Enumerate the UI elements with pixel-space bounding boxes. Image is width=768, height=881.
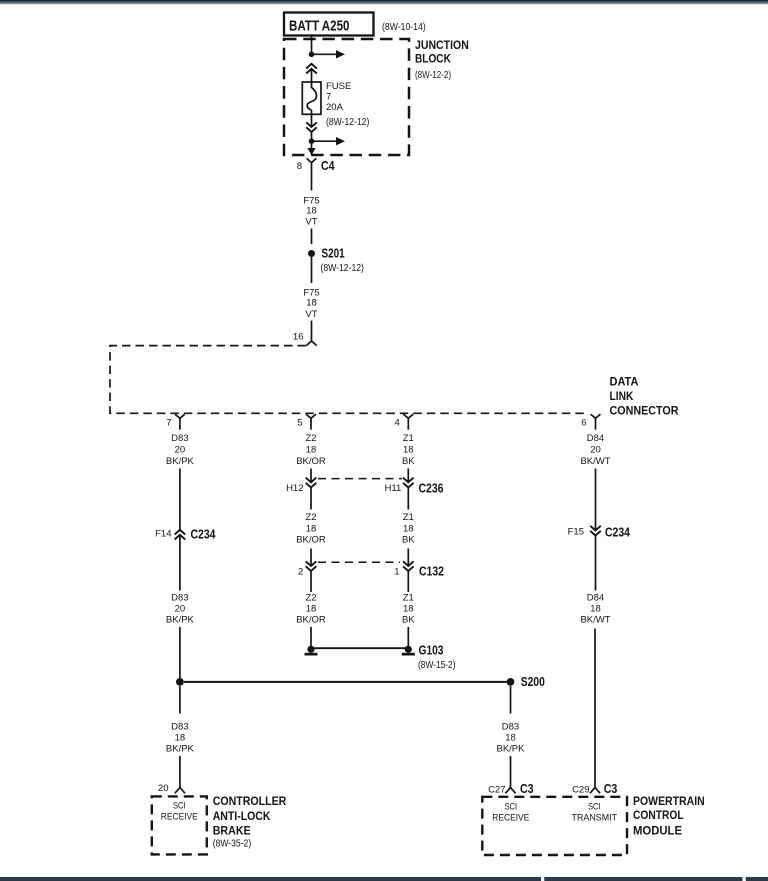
svg-text:(8W-15-2): (8W-15-2) (418, 660, 456, 671)
connector C132 pin 1 (394, 561, 444, 578)
svg-text:RECEIVE: RECEIVE (492, 813, 529, 824)
svg-text:7: 7 (326, 92, 331, 103)
wire below C132 pin1 (407, 571, 409, 592)
svg-text:H12: H12 (286, 483, 303, 494)
wire pin4 col to C236 (407, 469, 409, 483)
svg-text:C3: C3 (520, 782, 534, 796)
wire (311, 229, 313, 245)
svg-text:Z1: Z1 (403, 592, 414, 603)
svg-text:Z2: Z2 (305, 592, 316, 603)
wire pin6 col long drop to C29 (594, 629, 596, 788)
svg-text:BK/PK: BK/PK (166, 744, 195, 755)
connector chevrons (up) below dot (306, 64, 317, 74)
feed arrow 2 (314, 137, 345, 145)
wire Z2 col to ground (310, 627, 312, 646)
svg-text:ANTI-LOCK: ANTI-LOCK (213, 809, 271, 823)
wire pin5 col to C236 (310, 469, 312, 483)
junction dot (309, 52, 315, 58)
svg-text:Z2: Z2 (305, 433, 316, 444)
wire pin6 col to C234 F15 (595, 469, 597, 531)
wire label D84 18 BK/WT (lower right) (580, 592, 610, 625)
ground link wire (311, 647, 408, 649)
data link connector dashed outline (110, 346, 588, 414)
wire Z2 col to C132 (310, 549, 312, 567)
svg-text:BK/WT: BK/WT (580, 456, 610, 467)
svg-text:(8W-10-14): (8W-10-14) (382, 22, 426, 33)
svg-text:BK/PK: BK/PK (166, 456, 195, 467)
wire below C234 F14 (179, 535, 181, 591)
wire below C234 F15 (595, 536, 597, 591)
wire chevrons to junction dot 2 (311, 132, 313, 141)
wire label D83 18 BK/PK (right drop) (497, 722, 526, 755)
svg-text:BK/WT: BK/WT (580, 614, 610, 625)
svg-text:SCI: SCI (505, 802, 518, 813)
wire (311, 257, 313, 283)
wire below H12 (310, 488, 312, 510)
pin 4 (395, 414, 414, 430)
svg-text:20: 20 (158, 783, 169, 794)
svg-text:DATA: DATA (610, 374, 639, 388)
svg-text:SCI: SCI (173, 801, 186, 812)
svg-text:18: 18 (590, 603, 601, 614)
wire chevrons to fuse (311, 69, 313, 88)
wire to pin 16 (311, 321, 313, 342)
wire label Z2 18 BK/OR (lower) (296, 592, 326, 625)
svg-text:F14: F14 (155, 529, 171, 540)
pin 16 connector (293, 332, 317, 346)
wire below H11 (407, 488, 409, 510)
wire to pin 20 (179, 756, 181, 788)
controller anti-lock brake label (213, 794, 287, 849)
svg-text:18: 18 (306, 603, 317, 614)
svg-text:G103: G103 (419, 643, 444, 657)
svg-text:F15: F15 (568, 527, 584, 538)
svg-text:C132: C132 (419, 565, 444, 579)
svg-text:C27: C27 (488, 785, 505, 796)
fuse F7 (302, 81, 369, 128)
junction block dashed box (284, 38, 469, 155)
svg-text:Z2: Z2 (305, 512, 316, 523)
svg-text:C3: C3 (604, 782, 618, 796)
wire label Z1 18 BK (pin4) (402, 433, 415, 467)
svg-text:(8W-12-2): (8W-12-2) (415, 70, 451, 81)
svg-text:S201: S201 (322, 247, 345, 261)
svg-text:(8W-35-2): (8W-35-2) (213, 838, 252, 849)
svg-text:VT: VT (305, 216, 317, 227)
connector C234 F14 (chevrons up) (155, 527, 215, 541)
wire BATT to junction dot (311, 36, 313, 53)
svg-text:18: 18 (403, 444, 414, 455)
svg-text:CONTROLLER: CONTROLLER (213, 794, 287, 808)
svg-text:18: 18 (306, 298, 317, 309)
wire pin7 col to C234 (179, 469, 181, 530)
svg-text:Z1: Z1 (403, 512, 414, 523)
bottom page rule (0, 877, 768, 881)
svg-text:8: 8 (297, 161, 302, 172)
connector C236 H12 (286, 478, 316, 494)
svg-text:D84: D84 (587, 433, 604, 444)
svg-text:BK/OR: BK/OR (296, 614, 326, 625)
svg-text:6: 6 (581, 418, 586, 429)
pin 5 (297, 414, 316, 430)
wire Z1 col to C132 (407, 549, 409, 567)
svg-text:BK/OR: BK/OR (296, 534, 326, 545)
connector C236 H11 (385, 478, 444, 496)
splice S200 node left dot (176, 678, 184, 686)
pin 7 (166, 414, 185, 430)
svg-text:BK/PK: BK/PK (497, 744, 526, 755)
svg-text:VT: VT (305, 309, 317, 320)
wire fuse to chevrons (311, 110, 313, 127)
pin C27 connector C3 (488, 782, 534, 796)
junction dot 2 (309, 138, 315, 144)
svg-text:(8W-12-12): (8W-12-12) (321, 263, 364, 274)
svg-text:S200: S200 (521, 675, 545, 689)
pin 6 (581, 414, 600, 430)
svg-text:18: 18 (403, 603, 414, 614)
svg-text:LINK: LINK (610, 389, 634, 403)
svg-text:C234: C234 (191, 527, 216, 541)
data link connector label (610, 374, 679, 417)
powertrain control module label (633, 794, 705, 838)
svg-text:FUSE: FUSE (326, 81, 351, 92)
wire label Z2 18 BK/OR (pin5) (296, 433, 326, 467)
controller anti-lock brake dashed box (152, 796, 207, 854)
feed arrow 1 (314, 50, 345, 58)
svg-text:CONNECTOR: CONNECTOR (610, 404, 679, 418)
svg-text:BK: BK (402, 456, 415, 467)
svg-text:H11: H11 (385, 483, 402, 494)
svg-text:Z1: Z1 (403, 433, 414, 444)
pin 20 connector (158, 783, 185, 794)
wire label Z1 18 BK (lower) (402, 592, 415, 625)
ground dot left (305, 646, 318, 656)
svg-text:5: 5 (297, 418, 302, 429)
powertrain control module dashed box (482, 797, 627, 855)
connector C132 pin 2 (298, 561, 316, 577)
top page rule (0, 0, 768, 4)
wire label F75 18 VT (upper) (303, 195, 319, 227)
svg-text:D83: D83 (502, 722, 519, 733)
battery feed box BATT A250 (284, 13, 426, 36)
svg-text:4: 4 (395, 418, 400, 429)
svg-text:20: 20 (175, 603, 186, 614)
wire left col to S200 (179, 627, 181, 678)
wire label D83 20 BK/PK (pin7) (166, 433, 195, 467)
svg-text:BK: BK (402, 534, 415, 545)
svg-text:(8W-12-12): (8W-12-12) (326, 117, 369, 128)
svg-text:20A: 20A (326, 102, 344, 113)
wire label D83 20 BK/PK (lower left) (166, 592, 195, 625)
connector C234 F15 (chevrons down) (568, 525, 630, 539)
svg-text:BK/OR: BK/OR (296, 456, 326, 467)
wire label D84 20 BK/WT (pin6) (580, 433, 610, 467)
svg-text:D83: D83 (171, 722, 188, 733)
svg-text:18: 18 (505, 733, 516, 744)
svg-text:BK/PK: BK/PK (166, 614, 195, 625)
svg-text:C236: C236 (419, 481, 444, 495)
svg-text:BK: BK (402, 614, 415, 625)
splice S200 link wire (184, 681, 507, 683)
pin C29 connector C3 (572, 782, 617, 796)
wire to C27 (510, 756, 512, 788)
wire label F75 18 VT (lower) (303, 288, 319, 321)
dashed connector link C236 (318, 478, 402, 480)
svg-text:18: 18 (306, 206, 317, 217)
ground G103 right (402, 643, 456, 671)
wire to F75 label (311, 175, 313, 191)
svg-text:C234: C234 (605, 525, 630, 539)
splice S201 (308, 247, 364, 275)
svg-text:7: 7 (166, 418, 171, 429)
svg-text:1: 1 (394, 567, 399, 578)
svg-text:D83: D83 (171, 433, 188, 444)
svg-text:BRAKE: BRAKE (213, 824, 251, 838)
svg-text:18: 18 (175, 733, 186, 744)
svg-text:2: 2 (298, 567, 303, 578)
svg-text:D84: D84 (587, 592, 604, 603)
svg-text:BATT A250: BATT A250 (289, 18, 350, 35)
wire S200 down right (510, 686, 512, 714)
wire below C132 pin2 (310, 571, 312, 592)
svg-text:JUNCTION: JUNCTION (415, 38, 469, 52)
wire label Z2 18 BK/OR (mid) (296, 512, 326, 545)
svg-text:D83: D83 (171, 592, 188, 603)
svg-text:20: 20 (590, 444, 601, 455)
wire label Z1 18 BK (mid) (402, 512, 415, 545)
dashed connector link C132 (318, 561, 400, 563)
exit arrow down (307, 144, 315, 155)
wire label D83 18 BK/PK (left drop) (166, 722, 195, 755)
svg-text:CONTROL: CONTROL (633, 808, 684, 822)
svg-text:TRANSMIT: TRANSMIT (572, 813, 618, 824)
svg-text:C4: C4 (321, 159, 335, 173)
svg-text:18: 18 (403, 524, 414, 535)
svg-text:18: 18 (306, 524, 317, 535)
svg-text:RECEIVE: RECEIVE (161, 811, 198, 822)
svg-text:16: 16 (293, 332, 304, 343)
svg-text:BLOCK: BLOCK (415, 52, 451, 66)
svg-text:C29: C29 (572, 785, 589, 796)
wire Z1 col to ground (407, 627, 409, 646)
svg-text:20: 20 (175, 444, 186, 455)
splice S200 right dot (507, 675, 545, 689)
svg-text:POWERTRAIN: POWERTRAIN (633, 794, 705, 808)
svg-text:MODULE: MODULE (633, 824, 682, 838)
connector chevrons (down) below fuse (306, 122, 317, 132)
wire S200 down left (179, 686, 181, 714)
svg-text:18: 18 (306, 444, 317, 455)
pin 8 connector C4 (297, 158, 335, 174)
svg-text:SCI: SCI (588, 802, 601, 813)
